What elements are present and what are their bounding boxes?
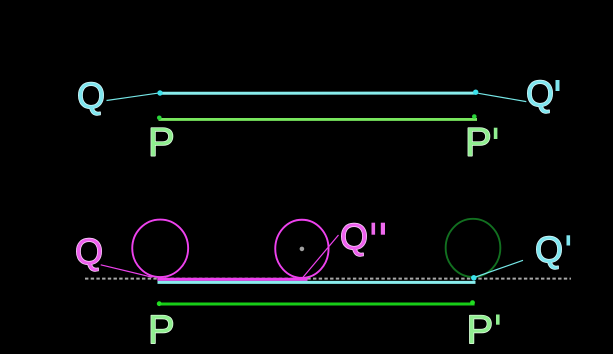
svg-text:P: P xyxy=(148,121,175,165)
svg-text:Q: Q xyxy=(77,75,105,116)
svg-text:P: P xyxy=(148,308,175,352)
svg-text:P: P xyxy=(467,308,494,352)
svg-text:Q: Q xyxy=(75,231,103,272)
svg-text:P: P xyxy=(465,121,492,165)
svg-text:Q: Q xyxy=(340,216,368,257)
svg-text:Q: Q xyxy=(535,229,563,270)
svg-text:Q: Q xyxy=(526,73,554,114)
